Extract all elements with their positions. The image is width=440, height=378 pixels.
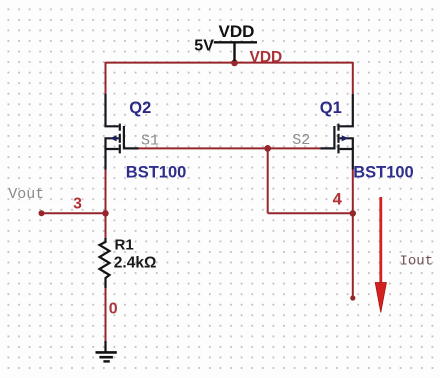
svg-text:5V: 5V xyxy=(194,37,214,54)
svg-text:BST100: BST100 xyxy=(353,163,414,181)
svg-text:0: 0 xyxy=(109,301,118,318)
svg-text:R1: R1 xyxy=(115,237,134,254)
svg-text:2.4kΩ: 2.4kΩ xyxy=(114,255,157,272)
svg-text:VDD: VDD xyxy=(250,49,283,66)
svg-text:VDD: VDD xyxy=(219,22,255,41)
svg-text:4: 4 xyxy=(333,191,343,209)
svg-text:Q2: Q2 xyxy=(129,99,151,117)
svg-text:BST100: BST100 xyxy=(126,163,187,181)
svg-text:S1: S1 xyxy=(141,133,159,150)
svg-text:Q1: Q1 xyxy=(320,99,342,117)
svg-text:S2: S2 xyxy=(292,132,310,149)
svg-text:Vout: Vout xyxy=(8,186,44,203)
svg-text:3: 3 xyxy=(73,195,82,212)
svg-text:Iout: Iout xyxy=(400,254,434,270)
